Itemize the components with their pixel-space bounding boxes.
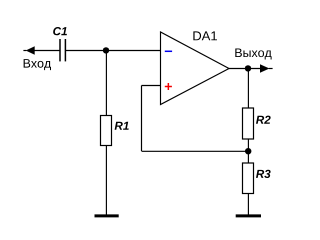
capacitor C1 — [60, 39, 65, 61]
output junction node — [245, 65, 251, 71]
label Вход — [24, 59, 51, 70]
feedback wire horizontal to R2/R3 node — [142, 150, 249, 152]
op-amp DA1 — [161, 32, 230, 105]
ground (under R1) — [95, 214, 119, 217]
feedback wire vertical — [141, 86, 143, 152]
wire R2 to R3 — [247, 139, 249, 163]
wire C1 to op-amp inverting input — [66, 50, 161, 52]
wire output node down to R2 — [247, 69, 249, 109]
label R3 — [256, 170, 271, 178]
input terminal arrow (Вход) — [23, 47, 34, 55]
label DA1 — [193, 31, 217, 40]
resistor R2 — [243, 108, 254, 139]
op-amp non-inverting input marker (+) — [165, 83, 172, 90]
label R1 — [115, 122, 129, 130]
ground (under R3) — [236, 214, 261, 217]
label Выход — [235, 48, 271, 59]
wire R1 to ground — [105, 146, 107, 216]
output terminal arrow (Выход) — [260, 65, 272, 73]
junction node R2/R3 feedback — [245, 148, 251, 154]
junction node at C1/R1 — [103, 47, 109, 53]
wire R3 to ground — [247, 194, 249, 216]
resistor R3 — [243, 163, 254, 194]
wire junction down to R1 — [105, 51, 107, 116]
resistor R1 — [101, 116, 112, 146]
wire op-amp + input stub — [142, 85, 161, 87]
op-amp inverting input marker (-) — [165, 50, 172, 52]
wire op-amp output — [229, 68, 261, 70]
label C1 — [53, 27, 67, 35]
wire input arrow to C1 — [34, 50, 60, 52]
label R2 — [256, 116, 271, 124]
